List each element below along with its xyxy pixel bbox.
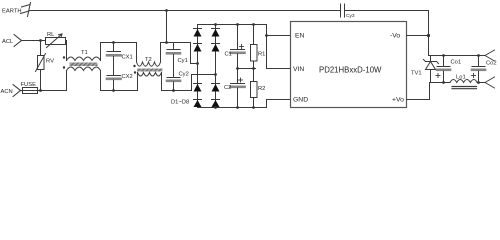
node R mid — [252, 67, 255, 70]
diode D5 — [212, 29, 220, 37]
diode D6 — [212, 44, 220, 52]
svg-text:Lo1: Lo1 — [456, 75, 466, 81]
svg-text:D1~D8: D1~D8 — [171, 100, 189, 106]
resistor R1 — [251, 25, 266, 69]
svg-text:VIN: VIN — [293, 66, 304, 73]
node EN junction — [265, 34, 268, 37]
diode D7 — [212, 84, 220, 92]
node top rail right column — [214, 23, 217, 26]
wire ACL to RL — [22, 40, 46, 42]
node ACL-RV junction — [39, 39, 42, 42]
varistor RV — [36, 41, 55, 91]
ACL connector J2 — [2, 35, 22, 47]
node CX1 top — [112, 41, 115, 44]
capacitor C1 — [225, 25, 245, 69]
capacitor CX1 — [107, 43, 133, 61]
wire AC node B to right bridge column — [192, 74, 216, 76]
svg-text:C1: C1 — [225, 52, 232, 58]
wire -Vo pin stub — [407, 35, 429, 37]
wire DC plus rail — [198, 25, 291, 69]
wire DC minus rail — [198, 100, 291, 108]
wire -Vo rail — [429, 55, 486, 57]
node Co2 bottom — [477, 81, 480, 84]
wire left bridge column — [197, 25, 199, 108]
diode D3 — [194, 84, 202, 92]
svg-text:RV: RV — [46, 59, 54, 65]
wire earth rail right — [345, 11, 429, 56]
node bottom rail R2 — [252, 106, 255, 109]
svg-text:C2: C2 — [224, 85, 231, 91]
zener TV1 — [411, 56, 439, 83]
svg-text:EN: EN — [295, 33, 305, 40]
wire earth rail left — [30, 10, 341, 12]
node -Vo junction — [427, 34, 430, 37]
diode D4 — [194, 100, 202, 108]
svg-text:FUSE: FUSE — [21, 82, 37, 88]
ACN connector J3 — [1, 85, 21, 97]
node Cy2 bottom — [172, 89, 175, 92]
node Co1 top — [442, 54, 445, 57]
wire RL to T1 — [66, 41, 67, 61]
node C mid — [236, 67, 239, 70]
op-amp U1 module PD21HBxxD-10W box — [291, 22, 407, 108]
node top rail R1 — [252, 23, 255, 26]
node bottom rail C2 — [236, 106, 239, 109]
terminal +Vo output — [485, 77, 495, 83]
capacitor Co2 — [472, 56, 497, 83]
wire +Vo pin stub — [407, 83, 430, 100]
svg-text:+Vo: +Vo — [392, 97, 404, 104]
node top rail C1 — [236, 23, 239, 26]
svg-text:GND: GND — [293, 97, 308, 104]
capacitor CX2 — [107, 74, 133, 91]
wire EN stub — [267, 35, 291, 37]
svg-text:Cy1: Cy1 — [178, 58, 188, 64]
terminal -Vo output — [485, 50, 495, 56]
svg-text:PD21HBxxD-10W: PD21HBxxD-10W — [319, 66, 382, 75]
node earth-Cy1 junction — [165, 9, 168, 12]
wire T2 bottom right rail — [162, 73, 192, 91]
capacitor Co1 — [436, 56, 461, 83]
node Co2 top — [477, 54, 480, 57]
fuse FUSE — [21, 82, 38, 94]
wire T1 top right to CX rail — [101, 43, 137, 63]
svg-text:ACL: ACL — [2, 39, 14, 45]
capacitor C2 — [224, 69, 245, 108]
svg-text:ACN: ACN — [1, 89, 13, 95]
node Co1 bottom — [442, 81, 445, 84]
svg-text:CX1: CX1 — [122, 55, 133, 61]
svg-text:TV1: TV1 — [411, 71, 422, 77]
capacitor Cy1 — [167, 43, 188, 65]
svg-text:-Vo: -Vo — [390, 33, 400, 40]
wire AC node A to left bridge column — [191, 43, 198, 64]
diode D8 — [212, 100, 220, 108]
svg-text:Co1: Co1 — [451, 60, 462, 66]
svg-text:EARTH: EARTH — [2, 9, 22, 15]
svg-text:T1: T1 — [81, 50, 88, 56]
wire CX1 to CX2 — [113, 57, 115, 76]
node right column AC — [214, 73, 217, 76]
wire T1 bottom right to T2 bottom rail — [101, 71, 138, 91]
svg-text:Cy2: Cy2 — [179, 72, 189, 78]
svg-text:Cy3: Cy3 — [346, 13, 355, 19]
node CX2 bottom — [112, 89, 115, 92]
svg-text:R1: R1 — [258, 52, 265, 58]
node earth drop junction — [165, 41, 168, 44]
svg-text:CX2: CX2 — [122, 74, 133, 80]
wire fuse to T1 bottom — [37, 71, 67, 91]
node bottom rail right column — [214, 106, 217, 109]
transformer T1 common-mode choke — [63, 50, 101, 71]
wire earth drop — [166, 11, 168, 43]
svg-text:R2: R2 — [258, 86, 265, 92]
capacitor Cy3 — [341, 4, 355, 19]
resistor R2 — [251, 69, 266, 108]
transformer T2 common-mode choke — [133, 57, 162, 76]
wire earth mini rail — [161, 42, 191, 44]
wire C1-C2 to R1-R2 midpoint — [238, 68, 256, 70]
wire T2 top right to earth mini rail — [160, 43, 162, 63]
resistor RL — [46, 32, 66, 48]
node RV-bottom junction — [39, 89, 42, 92]
EARTH connector J1 — [2, 3, 31, 17]
wire right bridge column — [215, 25, 217, 108]
diode D1 — [194, 29, 202, 37]
node left column AC — [196, 62, 199, 65]
inductor Lo1 — [430, 75, 486, 89]
capacitor Cy2 — [167, 72, 189, 91]
svg-text:RL: RL — [47, 32, 55, 38]
wire Cy1 bottom to Cy2 top — [173, 55, 175, 78]
svg-text:Co2: Co2 — [486, 61, 497, 67]
diode D2 — [194, 44, 202, 52]
